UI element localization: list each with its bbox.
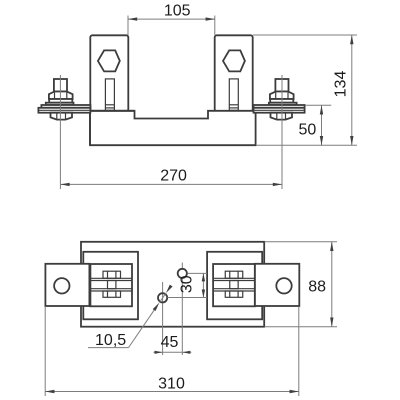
svg-text:30: 30 [179,275,196,293]
svg-text:88: 88 [308,278,326,295]
svg-text:50: 50 [299,121,317,138]
svg-text:10,5: 10,5 [95,332,126,349]
svg-text:45: 45 [161,334,179,351]
svg-text:310: 310 [158,376,185,393]
svg-text:105: 105 [164,2,191,19]
svg-text:134: 134 [333,71,350,98]
svg-text:270: 270 [160,168,187,185]
